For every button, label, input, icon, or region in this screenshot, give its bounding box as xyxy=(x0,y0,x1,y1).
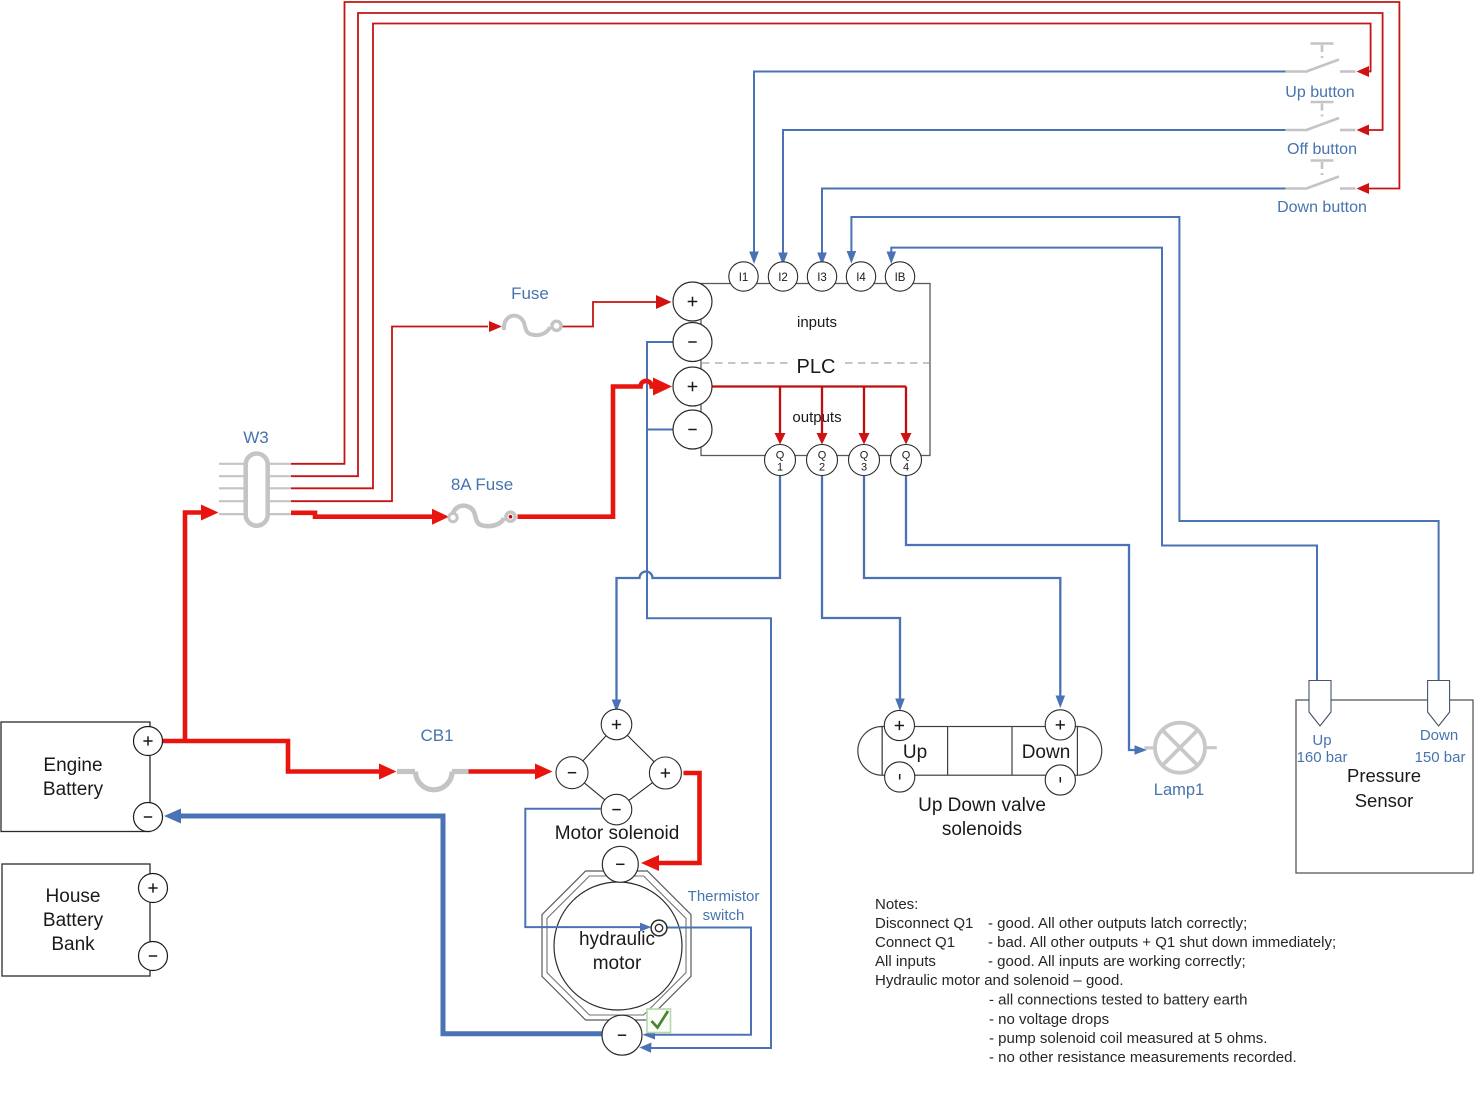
wire PLC Q4 to Lamp1 xyxy=(906,476,1138,750)
svg-text:Down: Down xyxy=(1420,727,1458,744)
lamp Lamp1 xyxy=(1155,723,1205,773)
connector W3 body xyxy=(246,454,268,526)
terminal motor bottom minus xyxy=(602,1015,642,1055)
arrow into Down button xyxy=(1357,183,1370,194)
svg-text:- pump solenoid coil measured: - pump solenoid coil measured at 5 ohms. xyxy=(989,1030,1267,1047)
wire PLC Q3 to valve Down solenoid xyxy=(864,476,1060,697)
svg-text:Q: Q xyxy=(818,450,827,462)
valve solenoids body xyxy=(858,727,882,776)
svg-text:I2: I2 xyxy=(778,272,788,284)
terminal PLC output minus xyxy=(673,410,712,449)
terminal PLC output plus xyxy=(673,367,712,406)
terminal valve Up minus xyxy=(885,762,915,792)
svg-text:Up button: Up button xyxy=(1285,84,1354,101)
terminal house battery plus xyxy=(139,874,168,903)
svg-text:Fuse: Fuse xyxy=(511,284,549,303)
wire Off button to PLC I2 xyxy=(783,130,1286,256)
svg-text:Connect Q1: Connect Q1 xyxy=(875,934,955,951)
WIRES-THIN-BLUE xyxy=(647,72,1439,1049)
wire thermistor switch to motor minus xyxy=(650,928,751,1035)
terminal motor top minus xyxy=(602,846,638,882)
svg-text:motor: motor xyxy=(593,953,642,974)
terminal motor solenoid plus top xyxy=(601,709,632,740)
terminal Q1 xyxy=(765,445,796,476)
arrow into CB1 xyxy=(379,764,397,780)
svg-text:Hydraulic motor and solenoid –: Hydraulic motor and solenoid – good. xyxy=(875,972,1123,989)
svg-text:Down: Down xyxy=(1022,742,1071,763)
svg-text:Q: Q xyxy=(902,450,911,462)
svg-text:IB: IB xyxy=(895,272,906,284)
wire PLC minus net to hydraulic motor minus xyxy=(647,342,771,1048)
terminal valve Down minus xyxy=(1045,765,1075,795)
svg-text:3: 3 xyxy=(861,462,867,474)
arrow into W3 xyxy=(201,505,219,521)
arrow into motor minus from PLC minus xyxy=(640,1043,652,1053)
motor octagon xyxy=(542,871,691,1020)
arrow into motor solenoid plus xyxy=(612,700,622,713)
arrow into I2 xyxy=(778,253,788,266)
terminal Q4 xyxy=(891,445,922,476)
arrow into PLC input plus xyxy=(656,295,672,309)
arrow into thermistor switch xyxy=(640,923,651,932)
svg-text:W3: W3 xyxy=(243,428,269,447)
arrow bus to Q1 xyxy=(775,433,786,445)
svg-text:I1: I1 xyxy=(739,272,749,284)
pressure sensor Up terminal xyxy=(1309,681,1331,727)
fuse F2 8A xyxy=(452,506,504,527)
arrow into 8A fuse xyxy=(432,509,449,525)
label PLC xyxy=(793,353,840,375)
PLC U1 box xyxy=(701,284,930,456)
arrow into motor solenoid left minus xyxy=(535,764,553,780)
svg-text:Engine: Engine xyxy=(43,755,102,776)
arrow into motor top minus xyxy=(641,855,659,871)
terminal IB xyxy=(885,262,914,291)
wire PLC Q1 to motor solenoid plus xyxy=(617,476,781,700)
svg-text:Up: Up xyxy=(1312,732,1331,749)
terminal valve Down plus xyxy=(1045,710,1075,740)
WIRES-THICK-RED xyxy=(162,381,700,863)
svg-text:- no voltage drops: - no voltage drops xyxy=(989,1011,1109,1028)
svg-text:House: House xyxy=(46,886,101,907)
svg-text:I4: I4 xyxy=(856,272,866,284)
arrow into I1 xyxy=(749,252,759,265)
pressure sensor box xyxy=(1296,700,1473,873)
pressure sensor Down terminal xyxy=(1428,681,1450,727)
wire engine battery minus to motor minus xyxy=(181,816,603,1034)
svg-text:- all connections tested to b: - all connections tested to battery eart… xyxy=(989,992,1247,1009)
svg-text:switch: switch xyxy=(703,907,745,924)
terminal motor solenoid minus left xyxy=(556,757,588,789)
PLC dashed divider xyxy=(702,362,929,364)
svg-text:I3: I3 xyxy=(817,272,827,284)
svg-text:- good. All inputs are working: - good. All inputs are working correctly… xyxy=(988,953,1246,970)
wire 8A fuse to PLC output plus xyxy=(518,381,655,517)
svg-text:Lamp1: Lamp1 xyxy=(1154,781,1204,799)
terminal PLC input plus xyxy=(673,282,712,321)
svg-text:2: 2 xyxy=(819,462,825,474)
svg-text:Disconnect Q1: Disconnect Q1 xyxy=(875,915,973,932)
wire branch PLC output minus xyxy=(647,429,673,431)
thermistor switch symbol xyxy=(651,920,667,936)
arrow into PLC output plus xyxy=(653,378,672,396)
svg-text:Thermistor: Thermistor xyxy=(688,888,760,905)
svg-text:Battery: Battery xyxy=(43,779,104,800)
terminal I1 xyxy=(729,262,758,291)
terminal engine battery minus xyxy=(134,803,163,832)
svg-text:PLC: PLC xyxy=(797,356,836,378)
wire CB1 to motor solenoid minus xyxy=(469,769,537,774)
motor circle xyxy=(554,882,682,1010)
svg-text:Pressure: Pressure xyxy=(1347,765,1421,786)
svg-text:160 bar: 160 bar xyxy=(1297,749,1348,766)
wire W3 pin4 to Fuse xyxy=(291,327,488,502)
svg-text:- good. All other outputs latc: - good. All other outputs latch correctl… xyxy=(988,915,1247,932)
switch Up button xyxy=(1286,44,1356,73)
arrow into Off button xyxy=(1357,125,1370,136)
terminal Q3 xyxy=(849,445,880,476)
wire PLC Q2 to valve Up solenoid xyxy=(822,476,900,700)
wire motor solenoid plus to motor top minus xyxy=(658,773,700,863)
svg-text:150 bar: 150 bar xyxy=(1415,749,1466,766)
solenoid Motor solenoid diamond xyxy=(572,725,665,810)
svg-text:inputs: inputs xyxy=(797,314,837,331)
svg-text:1: 1 xyxy=(777,462,783,474)
wire pressure sensor Up to PLC IB xyxy=(891,248,1317,682)
svg-text:All inputs: All inputs xyxy=(875,953,936,970)
terminal Q2 xyxy=(807,445,838,476)
terminal engine battery plus xyxy=(134,727,163,756)
arrow into engine battery minus xyxy=(164,809,181,824)
svg-text:- bad. All other outputs + Q1: - bad. All other outputs + Q1 shut down … xyxy=(988,934,1336,951)
svg-text:Motor solenoid: Motor solenoid xyxy=(555,823,680,844)
terminal PLC input minus xyxy=(673,323,712,362)
arrow bus to Q3 xyxy=(859,433,870,445)
circuit breaker CB1 xyxy=(397,772,469,790)
wire W3 pin2 to Off button xyxy=(291,13,1383,476)
fuse F1 top xyxy=(504,316,550,336)
wire W3 pin3 to Up button xyxy=(291,24,1371,489)
svg-text:4: 4 xyxy=(903,462,909,474)
WIRES-MED-BLUE outputs xyxy=(617,476,1139,750)
motor octagon inner wall xyxy=(547,876,686,1015)
battery Engine Battery box xyxy=(1,722,150,832)
arrow into Up button xyxy=(1357,66,1370,77)
wire W3 pin5 to 8A fuse xyxy=(291,513,433,517)
arrow into valve Up plus xyxy=(895,699,905,712)
svg-text:Q: Q xyxy=(860,450,869,462)
wire pressure sensor Down to PLC I4 xyxy=(851,217,1438,682)
arrow into Fuse xyxy=(489,321,502,332)
terminal I4 xyxy=(846,262,875,291)
svg-text:outputs: outputs xyxy=(792,409,841,426)
terminal motor solenoid minus bottom xyxy=(601,794,632,825)
svg-text:- no other resistance measurem: - no other resistance measurements recor… xyxy=(989,1049,1297,1066)
wire Fuse to PLC input plus xyxy=(562,302,656,327)
arrow bus to Q4 xyxy=(901,433,912,445)
svg-text:Sensor: Sensor xyxy=(1355,790,1414,811)
checkbox tested ok xyxy=(647,1009,671,1033)
arrow into motor minus from thermistor xyxy=(643,1030,656,1040)
svg-text:Off button: Off button xyxy=(1287,141,1357,158)
svg-text:Up: Up xyxy=(903,742,927,763)
svg-text:Battery: Battery xyxy=(43,910,104,931)
terminal valve Up plus xyxy=(884,710,914,740)
connector W3 pins xyxy=(219,464,291,514)
svg-text:Notes:: Notes: xyxy=(875,896,918,913)
svg-text:Q: Q xyxy=(776,450,785,462)
wire W3 pin1 to Down button xyxy=(291,2,1399,464)
wire engine battery plus to W3 xyxy=(185,513,202,742)
svg-text:Up Down valve: Up Down valve xyxy=(918,795,1046,816)
wire Down button to PLC I3 xyxy=(822,189,1286,257)
svg-text:Down button: Down button xyxy=(1277,199,1367,216)
wire Up button to PLC I1 xyxy=(754,72,1286,256)
wire motor solenoid minus to thermistor switch xyxy=(525,809,643,927)
arrow into valve Down plus xyxy=(1056,696,1066,709)
arrow into IB junction xyxy=(887,252,897,265)
lamp Lamp1 stubs xyxy=(1144,746,1216,749)
switch Off button xyxy=(1286,102,1356,131)
PLC internal output bus xyxy=(712,387,906,438)
WIRES-THIN-RED xyxy=(291,2,1399,501)
terminal motor solenoid plus right xyxy=(649,757,681,789)
switch Down button xyxy=(1286,161,1356,190)
terminal house battery minus xyxy=(139,942,168,971)
svg-text:Bank: Bank xyxy=(51,934,95,955)
svg-text:hydraulic: hydraulic xyxy=(579,929,655,950)
svg-text:8A Fuse: 8A Fuse xyxy=(451,475,513,494)
terminal I2 xyxy=(768,262,797,291)
notes text block xyxy=(875,896,1336,1066)
arrow into I4 xyxy=(847,251,857,264)
arrow bus to Q2 xyxy=(817,433,828,445)
arrow into I3 xyxy=(817,253,827,266)
svg-text:solenoids: solenoids xyxy=(942,819,1022,840)
svg-text:CB1: CB1 xyxy=(420,726,453,745)
arrow into Lamp1 xyxy=(1135,745,1148,755)
battery House Battery Bank box xyxy=(2,864,150,976)
terminal I3 xyxy=(807,262,836,291)
wire engine battery plus to CB1 xyxy=(162,741,380,772)
